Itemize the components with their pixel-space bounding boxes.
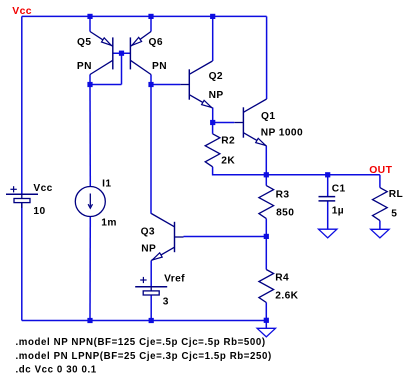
resistor R3 — [259, 186, 274, 219]
resistor R2 — [205, 134, 220, 167]
wire: Q3 emitter to Vref — [150, 261, 152, 287]
node: bottom rail / R4 / ground — [264, 318, 269, 323]
node: Q6 collector / Q2 base / Q3 collector — [148, 82, 153, 87]
wire: R2 top lead — [212, 123, 214, 134]
svg-text:1µ: 1µ — [332, 206, 344, 217]
resistor R4 — [259, 270, 274, 303]
transistor Q3 (NPN, mirrored) — [151, 214, 183, 261]
current source I1 — [75, 187, 105, 217]
wire: Q6 collector to Q3 collector — [150, 85, 152, 214]
svg-text:10: 10 — [33, 206, 45, 217]
svg-text:I1: I1 — [102, 178, 111, 189]
transistor Q2 (NPN) — [180, 61, 212, 108]
svg-text:PN: PN — [152, 61, 167, 72]
svg-text:.dc Vcc 0 30 0.1: .dc Vcc 0 30 0.1 — [16, 365, 97, 376]
svg-text:OUT: OUT — [369, 165, 392, 176]
wire: Q6 collector to Q2 base — [151, 84, 180, 86]
wire: Q3 base wire — [184, 236, 267, 238]
resistor RL — [373, 188, 388, 221]
capacitor C1 — [319, 197, 336, 201]
transistor Q5 (PNP) — [90, 32, 113, 75]
svg-text:2K: 2K — [221, 156, 235, 167]
node: OUT rail / Q1 emitter / R3 — [264, 172, 269, 177]
wire: Vcc top rail — [22, 15, 267, 17]
voltage source Vref (battery) — [135, 277, 167, 295]
svg-text:Q1: Q1 — [261, 111, 275, 122]
ground (below C1) — [319, 229, 337, 238]
node: Q2 emitter / Q1 base / R2 — [210, 120, 215, 125]
wire: Q2 emitter to node — [212, 108, 214, 123]
wire: Q5 collector lead — [89, 75, 91, 85]
wire: RL bottom lead — [379, 221, 381, 230]
node: R3 / R4 / Q3 base — [264, 234, 269, 239]
svg-text:Vcc: Vcc — [12, 6, 32, 17]
wire: C1 bottom lead — [327, 201, 329, 229]
wire: bottom rail — [22, 320, 266, 322]
wire: Q5 emitter lead — [89, 16, 91, 31]
wire: OUT rail — [213, 174, 380, 176]
svg-text:850: 850 — [276, 208, 294, 219]
svg-text:NP: NP — [209, 90, 224, 101]
wire: rail to ground G3 — [265, 321, 267, 329]
svg-text:Vref: Vref — [164, 274, 185, 285]
wire: R2 bottom lead — [212, 167, 214, 176]
svg-text:R3: R3 — [276, 190, 290, 201]
node: OUT rail / C1 — [325, 172, 330, 177]
svg-text:Vcc: Vcc — [33, 183, 52, 194]
wire: R4 top lead — [265, 236, 267, 269]
wire: Q1 collector to top rail — [266, 16, 268, 99]
wire: R4 bottom lead — [265, 303, 267, 321]
wire: Q6 collector lead — [150, 75, 152, 85]
wire: R3 bottom lead — [265, 219, 267, 237]
wire: Vref bottom lead — [150, 295, 152, 321]
node: top rail / Q2 collector — [210, 14, 215, 19]
svg-text:RL: RL — [389, 189, 403, 200]
wire: Q1 emitter to OUT rail — [265, 146, 267, 175]
svg-text:Q3: Q3 — [141, 227, 155, 238]
wire: C1 top lead — [327, 175, 329, 196]
wire: Q5-Q6 base tie — [113, 52, 131, 54]
voltage source Vcc (battery) — [6, 186, 38, 208]
ground (below RL) — [371, 229, 389, 238]
svg-text:3: 3 — [163, 297, 169, 308]
node: Q5-Q6 base tie — [119, 51, 124, 56]
svg-text:R4: R4 — [275, 273, 289, 284]
svg-text:.model NP NPN(BF=125 Cje=.5p C: .model NP NPN(BF=125 Cje=.5p Cjc=.5p Rb=… — [16, 337, 266, 348]
svg-text:C1: C1 — [332, 184, 346, 195]
wire: junction to I1 top — [89, 85, 91, 187]
transistor Q1 (NPN) — [234, 99, 266, 146]
node: Q5 collector / I1 — [87, 82, 92, 87]
wire: Q2 collector to top rail — [212, 16, 214, 61]
node: bottom rail / Vref — [149, 318, 154, 323]
wire: left Vcc rail upper — [21, 16, 23, 194]
ground (below R4) — [257, 328, 275, 337]
svg-text:.model PN LPNP(BF=25 Cje=.3p C: .model PN LPNP(BF=25 Cje=.3p Cjc=1.5p Rb… — [16, 351, 272, 362]
svg-text:R2: R2 — [221, 135, 235, 146]
node: top rail / Q5 emitter — [87, 14, 92, 19]
transistor Q6 (PNP) — [130, 32, 151, 75]
svg-text:Q6: Q6 — [149, 37, 163, 48]
wire: base tie drop — [121, 53, 123, 84]
node: top rail / Q6 emitter — [148, 14, 153, 19]
wire: base tie to Q5 collector — [90, 84, 122, 86]
svg-text:1m: 1m — [101, 218, 117, 229]
wire: left Vcc rail lower — [21, 203, 23, 321]
wire: RL drop — [379, 175, 381, 188]
svg-text:Q2: Q2 — [209, 71, 223, 82]
svg-text:NP 1000: NP 1000 — [261, 127, 303, 138]
svg-text:NP: NP — [141, 243, 156, 254]
svg-text:Q5: Q5 — [77, 37, 91, 48]
svg-text:5: 5 — [391, 209, 397, 220]
node: bottom rail / I1 — [87, 318, 92, 323]
wire: node to Q1 base — [213, 122, 235, 124]
wire: R3 top lead — [265, 175, 267, 186]
wire: I1 bottom to rail — [89, 217, 91, 321]
svg-text:2.6K: 2.6K — [275, 290, 298, 301]
wire: Q6 emitter lead — [150, 16, 152, 31]
svg-text:PN: PN — [77, 61, 92, 72]
